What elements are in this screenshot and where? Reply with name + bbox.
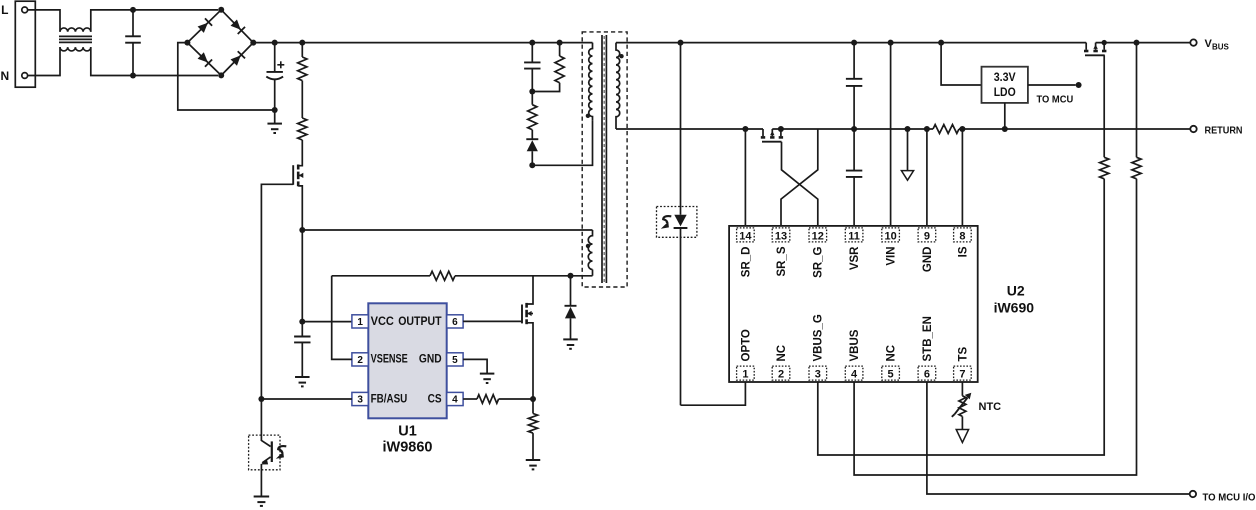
wire choke top to L line [91, 10, 218, 32]
U2 pin label SR_S [776, 246, 788, 276]
U2 pin 9 box [918, 228, 936, 243]
U2 pin label STB_EN [922, 316, 934, 361]
svg-text:BUS: BUS [1212, 43, 1230, 52]
node T1 aux phase dot [586, 244, 590, 248]
U2 pin label VIN [886, 247, 898, 266]
U1 label VSENSE [371, 354, 408, 366]
svg-text:IS: IS [957, 246, 969, 257]
U1 pin 3 box [352, 392, 368, 405]
U1 pin 6 box [447, 315, 463, 328]
regulator 3.3V LDO box [982, 67, 1028, 103]
wire choke bottom to N line [91, 47, 218, 75]
svg-text:VCC: VCC [371, 316, 394, 328]
node VCC [299, 319, 305, 325]
svg-text:U2: U2 [1007, 283, 1025, 299]
diode BR1-D2 [230, 19, 245, 34]
resistor R8 shunt [933, 125, 959, 134]
diode D2 aux rectifier [565, 276, 577, 339]
node bulk cap top [272, 40, 278, 46]
node TO MCU terminal [1076, 82, 1082, 88]
wire VBUS_G route [818, 179, 1104, 455]
wire R1-R2 [301, 81, 303, 118]
U2 pin label SR_G [813, 246, 825, 277]
transistor Q2 MOSFET [522, 276, 533, 399]
U1 pin 1 box [352, 315, 368, 328]
wire TS to NTC [961, 382, 963, 396]
svg-text:9: 9 [924, 230, 930, 242]
U1 pin 5 box [447, 353, 463, 366]
node GND pin [924, 126, 930, 132]
U2 pin label VSR [849, 246, 861, 270]
wire DC+ rail [253, 42, 592, 44]
node VIN top [888, 40, 894, 46]
U2 pin label NC [776, 345, 788, 362]
svg-text:TO MCU I/O: TO MCU I/O [1203, 492, 1256, 503]
resistor R5 current sense [528, 399, 537, 460]
inductor L1 common-mode choke top winding [60, 28, 91, 32]
svg-text:NC: NC [776, 345, 788, 362]
node aux sense [299, 227, 305, 233]
node return symbol [905, 126, 911, 132]
diode D1 clamp [526, 130, 538, 166]
wire LDO ground [1004, 103, 1006, 129]
label NTC [979, 401, 1002, 413]
U2 refdes [1007, 283, 1025, 299]
wire LDO feed [941, 43, 981, 85]
svg-text:3.3V: 3.3V [994, 70, 1016, 84]
svg-text:7: 7 [959, 369, 965, 381]
ground GND opto [254, 497, 270, 506]
U1 label OUTPUT [398, 316, 441, 328]
inductor T1 auxiliary winding [588, 230, 592, 276]
U2 pin label SR_D [740, 247, 752, 278]
wire Q4 gate drop [1103, 55, 1105, 157]
svg-text:iW690: iW690 [994, 300, 1035, 316]
ground GND2 [295, 377, 310, 386]
node VBUS sense top [1134, 40, 1140, 46]
connector J1 AC input [15, 1, 35, 87]
wire R4 to CS node [499, 398, 533, 400]
svg-text:2: 2 [357, 355, 363, 366]
U2 pin label TS [957, 346, 969, 361]
U2 pin 4 box [845, 366, 863, 380]
ground return symbol [901, 129, 913, 180]
U2 pin 7 box [954, 366, 972, 380]
wire aux top line [302, 229, 592, 231]
U1 label FB/ASU [371, 393, 408, 405]
node X-cap top [130, 7, 136, 13]
node primary ground [272, 107, 278, 113]
wire VCC to pin1 [302, 321, 352, 323]
svg-text:14: 14 [739, 230, 752, 242]
U2 pin 8 box [954, 228, 972, 243]
node LDO ground [1002, 126, 1008, 132]
terminal VBUS [1190, 39, 1196, 45]
ground GND3 [563, 339, 578, 348]
U2 part number [994, 300, 1035, 316]
transistor Q1 MOSFET [293, 140, 303, 230]
svg-text:RETURN: RETURN [1205, 125, 1243, 136]
svg-text:VBUS: VBUS [849, 329, 861, 361]
U2 pin label VBUS [849, 329, 861, 361]
wire to primary bottom [532, 120, 592, 165]
node LDO feed [938, 40, 944, 46]
node CS [530, 396, 536, 402]
capacitor C1 bulk electrolytic [266, 43, 284, 110]
svg-text:6: 6 [452, 317, 458, 328]
node snubber cap top [529, 40, 535, 46]
svg-text:2: 2 [778, 369, 784, 381]
wire opto to pin1 [681, 382, 746, 405]
wire VBUS rail right [1096, 42, 1191, 44]
U2 pin 10 box [882, 228, 900, 243]
svg-text:4: 4 [452, 395, 458, 406]
capacitor C5 VSR [846, 129, 862, 226]
node startup top [299, 40, 305, 46]
node FB [258, 396, 264, 402]
svg-text:1: 1 [742, 369, 748, 381]
capacitor CX1 [125, 10, 141, 76]
svg-text:U1: U1 [398, 424, 417, 440]
label VBUS [1205, 38, 1230, 52]
svg-text:STB_EN: STB_EN [922, 316, 934, 361]
svg-text:11: 11 [848, 230, 860, 242]
U2 pin label OPTO [740, 329, 752, 361]
wire cross SR_G [782, 142, 818, 226]
node bridge right [250, 40, 256, 46]
node SR drain [742, 126, 748, 132]
resistor R9 gate [1100, 157, 1109, 178]
wire RETURN rail left [616, 128, 763, 130]
svg-text:12: 12 [812, 230, 824, 242]
U2 pin label IS [957, 246, 969, 257]
node bridge top [218, 7, 224, 13]
wire VBUS rail left [616, 42, 1086, 44]
wire pin4 CS [463, 398, 477, 400]
inductor L1 core [59, 36, 92, 42]
wire RETURN rail mid [772, 128, 933, 130]
svg-text:4: 4 [851, 369, 858, 381]
wire L to choke [28, 10, 60, 32]
svg-text:N: N [0, 69, 9, 83]
U2 pin 3 box [809, 366, 827, 380]
capacitor C2 VCC [294, 322, 310, 377]
wire STB_EN route [927, 382, 1190, 494]
U1 label GND [419, 354, 442, 366]
svg-text:VBUS_G: VBUS_G [813, 314, 825, 361]
svg-text:FB/ASU: FB/ASU [371, 393, 408, 405]
svg-text:NC: NC [886, 345, 898, 362]
U2 pin 6 box [918, 366, 936, 380]
svg-text:13: 13 [775, 230, 787, 242]
inductor T1 primary winding [589, 43, 593, 121]
U2 pin 5 box [882, 366, 900, 380]
wire pin8 IS [961, 129, 963, 226]
node opto top [678, 40, 684, 46]
svg-text:SR_S: SR_S [776, 246, 788, 276]
wire pin3 FB [261, 398, 352, 400]
diode BR1-D4 [230, 51, 245, 66]
thermistor NTC [952, 393, 972, 417]
label RETURN [1205, 125, 1243, 136]
U1 label CS [428, 393, 442, 405]
node output cap1 top [851, 40, 857, 46]
U2 pin 2 box [772, 366, 790, 380]
node bridge left [184, 40, 190, 46]
label N [0, 69, 9, 83]
svg-text:SR_D: SR_D [740, 247, 752, 278]
label TO MCU I/O [1203, 492, 1256, 503]
wire pin6 to Q2 gate [463, 320, 522, 322]
node output cap1 bottom [851, 126, 857, 132]
wire VIN [890, 43, 892, 226]
node bridge bottom [218, 72, 224, 78]
svg-text:SR_G: SR_G [813, 246, 825, 277]
U2 pin label GND [922, 247, 934, 273]
U1 part number [383, 440, 433, 456]
label TO MCU [1037, 95, 1074, 106]
svg-text:6: 6 [924, 369, 930, 381]
diode BR1-D1 [197, 18, 212, 33]
svg-text:3: 3 [357, 395, 363, 406]
terminal RETURN [1190, 126, 1196, 132]
ground primary GND1 [267, 110, 282, 133]
node IS pin [959, 126, 965, 132]
node X-cap bottom [130, 73, 136, 79]
svg-text:5: 5 [888, 369, 894, 381]
U2 pin label NC [886, 345, 898, 362]
svg-text:NTC: NTC [979, 401, 1002, 413]
bridge rectifier BR1 diamond [187, 10, 253, 76]
wire pin14 SR_D [744, 129, 746, 226]
inductor L1 bottom winding [60, 47, 91, 51]
node T1 secondary phase dot [619, 54, 623, 58]
diode BR1-D3 [197, 52, 212, 67]
svg-text:8: 8 [959, 230, 965, 242]
svg-text:1: 1 [357, 317, 363, 328]
svg-text:GND: GND [922, 247, 934, 273]
capacitor C3 snubber [524, 43, 540, 92]
U1 refdes [398, 424, 417, 440]
svg-text:TS: TS [957, 346, 969, 361]
wire VSENSE line right [455, 275, 593, 277]
resistor R7 [528, 92, 537, 130]
ground GND5 [526, 460, 541, 469]
transformer T1 core [602, 35, 606, 283]
resistor R10 VBUS sense [1132, 157, 1141, 178]
transformer T1 boundary [582, 32, 627, 287]
wire VSENSE line left [332, 275, 430, 277]
U1 pin 4 box [447, 392, 463, 405]
wire N to choke [28, 47, 60, 75]
node SR source [778, 126, 784, 132]
svg-text:LDO: LDO [994, 85, 1016, 99]
transistor Q4 load switch MOSFET [1084, 43, 1106, 56]
op-amp U1 iW9860 body [368, 303, 446, 418]
wire opto LED line [680, 43, 682, 406]
label L [1, 3, 8, 17]
svg-text:5: 5 [452, 355, 458, 366]
transistor Q3 sync rectifier MOSFET [761, 129, 783, 142]
U1 pin 2 box [352, 353, 368, 366]
svg-text:VIN: VIN [886, 247, 898, 266]
svg-text:10: 10 [884, 230, 896, 242]
terminal TO MCU I/O [1190, 491, 1196, 497]
resistor R2 [298, 118, 307, 140]
wire pin2 VSENSE riser [332, 276, 352, 360]
resistor R1 [298, 43, 307, 81]
U2 pin 1 box [737, 366, 755, 380]
node snubber join [529, 89, 535, 95]
svg-text:OPTO: OPTO [740, 329, 752, 361]
svg-text:VSENSE: VSENSE [371, 354, 408, 366]
U1 label VCC [371, 316, 394, 328]
wire VBUS sense drop [1136, 43, 1138, 158]
resistor R3 sense [430, 271, 455, 280]
svg-text:TO MCU: TO MCU [1037, 95, 1074, 106]
wire pin5 to ground [463, 359, 487, 373]
wire VBUS route [854, 179, 1136, 475]
U2 pin 13 box [772, 228, 790, 243]
U2 pin 12 box [809, 228, 827, 243]
wire RETURN rail right [959, 128, 1190, 130]
capacitor C4 output [846, 43, 862, 129]
node aux diode [568, 273, 574, 279]
optocoupler OPT1 LED [657, 207, 697, 238]
wire VCC riser [301, 230, 303, 322]
wire LDO output [1028, 84, 1076, 86]
ground GND4 [480, 374, 495, 383]
node primary bottom [529, 162, 535, 168]
wire pin9 GND [926, 129, 928, 226]
inductor T1 secondary winding [616, 43, 620, 129]
op-amp U2 iW690 body [729, 226, 978, 382]
U2 pin 14 box [737, 228, 755, 243]
wire Q1 gate to FB [261, 184, 293, 399]
svg-text:GND: GND [419, 354, 442, 366]
resistor R4 CS [477, 395, 499, 404]
ground NTC return symbol [956, 416, 968, 442]
svg-text:VSR: VSR [849, 246, 861, 270]
svg-text:iW9860: iW9860 [383, 440, 433, 456]
wire bridge negative to ground node [178, 43, 275, 110]
svg-text:CS: CS [428, 393, 442, 405]
U2 pin 11 box [845, 228, 863, 243]
U2 pin label VBUS_G [813, 314, 825, 361]
wire cross SR_S [781, 129, 818, 226]
node Q4 source [1102, 40, 1107, 45]
resistor R6 snubber [532, 43, 564, 92]
node snubber res top [557, 40, 563, 46]
svg-text:OUTPUT: OUTPUT [398, 316, 441, 328]
svg-text:L: L [1, 3, 8, 17]
node T1 primary phase dot [586, 114, 590, 118]
optocoupler OPT1 transistor [249, 399, 287, 496]
svg-text:3: 3 [815, 369, 821, 381]
